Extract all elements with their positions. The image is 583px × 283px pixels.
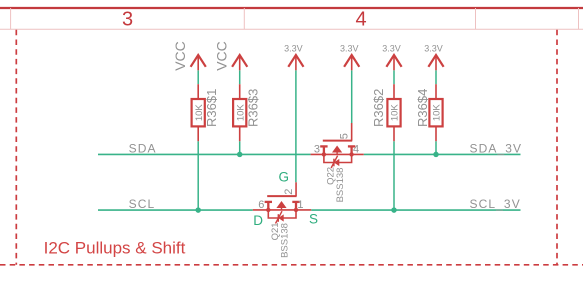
svg-text:4: 4 — [355, 9, 366, 31]
wire VCC to R36$3 — [239, 70, 241, 84]
svg-text:BSS138: BSS138 — [335, 168, 346, 203]
power symbol VCC (above R36$3) — [232, 55, 247, 70]
svg-text:SDA_3V: SDA_3V — [470, 142, 523, 156]
power symbol VCC (above R36$1) — [191, 55, 206, 70]
svg-text:SCL_3V: SCL_3V — [470, 197, 521, 211]
svg-text:1: 1 — [297, 199, 303, 211]
svg-text:S: S — [309, 212, 318, 227]
wire 3.3V to Q22 gate — [351, 70, 353, 123]
power symbol 3.3V (Q21 gate) — [288, 55, 303, 70]
wire VCC to R36$1 — [197, 70, 199, 84]
dashed partition line bottom — [0, 264, 583, 266]
wire R36$1 to SCL — [197, 141, 199, 210]
dashed partition line right — [556, 30, 558, 265]
svg-text:10K: 10K — [390, 104, 401, 122]
dashed partition line left — [15, 30, 17, 265]
svg-text:3.3V: 3.3V — [424, 44, 443, 54]
junction R36$3/SDA — [237, 152, 243, 158]
svg-text:4: 4 — [353, 144, 359, 156]
svg-text:VCC: VCC — [172, 41, 188, 71]
svg-text:5: 5 — [338, 133, 350, 139]
wire 3.3V to R36$2 — [393, 70, 395, 84]
svg-text:3: 3 — [314, 144, 320, 156]
wire R36$3 to SDA — [239, 141, 241, 154]
resistor R36$1 — [192, 84, 205, 141]
svg-text:BSS138: BSS138 — [279, 223, 290, 258]
wire SCL_3V right segment — [311, 209, 520, 211]
power symbol 3.3V (Q22 gate) — [344, 55, 359, 70]
wire SCL left segment — [98, 209, 253, 211]
svg-text:3.3V: 3.3V — [340, 44, 359, 54]
svg-text:3.3V: 3.3V — [382, 44, 401, 54]
power symbol 3.3V (above R36$2) — [386, 55, 401, 70]
svg-text:3.3V: 3.3V — [284, 44, 303, 54]
svg-text:R36$2: R36$2 — [371, 89, 386, 127]
svg-text:I2C Pullups & Shift: I2C Pullups & Shift — [44, 238, 186, 257]
junction R36$1/SCL — [195, 207, 201, 213]
transistor Q21 BSS138 — [253, 182, 311, 223]
svg-text:R36$1: R36$1 — [204, 89, 219, 127]
svg-text:2: 2 — [283, 189, 295, 195]
svg-text:R36$4: R36$4 — [415, 89, 430, 127]
junction R36$2/SCL_3V — [391, 207, 397, 213]
wire R36$4 to SDA_3V — [435, 141, 437, 154]
wire 3.3V to Q21 gate (net G) — [295, 70, 297, 182]
svg-text:SDA: SDA — [129, 142, 157, 156]
svg-text:D: D — [253, 213, 263, 228]
svg-text:3: 3 — [122, 9, 133, 31]
wire SDA_3V right segment — [364, 153, 521, 155]
wire SDA left segment — [98, 153, 311, 155]
wire R36$2 to SCL_3V — [393, 141, 395, 210]
svg-text:R36$3: R36$3 — [245, 89, 260, 127]
svg-text:10K: 10K — [432, 104, 443, 122]
power symbol 3.3V (above R36$4) — [428, 55, 443, 70]
svg-text:VCC: VCC — [214, 41, 230, 71]
svg-text:6: 6 — [258, 199, 264, 211]
resistor R36$2 — [387, 84, 400, 141]
svg-text:SCL: SCL — [129, 197, 156, 211]
wire 3.3V to R36$4 — [435, 70, 437, 84]
svg-text:G: G — [279, 169, 290, 184]
resistor R36$4 — [429, 84, 442, 141]
junction R36$4/SDA_3V — [433, 152, 439, 158]
transistor Q22 BSS138 — [311, 123, 364, 168]
frame (decorative) — [0, 8, 583, 31]
resistor R36$3 — [233, 84, 246, 141]
